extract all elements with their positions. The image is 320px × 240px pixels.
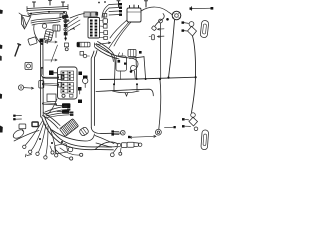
stack ring 2 <box>64 28 67 31</box>
ribbon terminals <box>119 3 122 16</box>
ribbon converge wires <box>102 5 109 19</box>
module wire dot <box>41 43 43 45</box>
bracket rivet 3 <box>63 11 65 13</box>
web dot 2 <box>51 142 53 144</box>
web cross wire <box>14 131 39 142</box>
web ring 8 stem <box>50 146 52 151</box>
bracket rivet 1 <box>30 13 32 15</box>
small stud part <box>152 35 155 40</box>
connector lower pinblock <box>77 42 90 47</box>
lower bracket with hooks <box>28 11 67 16</box>
stack feed wires <box>67 17 80 32</box>
main trunk right vertical <box>91 51 97 128</box>
stack square 1 <box>64 24 68 27</box>
web oval ring <box>12 128 25 140</box>
hook bolt c <box>185 118 189 121</box>
lower bracket second line <box>29 13 66 15</box>
stack ring 1 <box>64 19 67 22</box>
T bolts pair <box>16 116 22 120</box>
leader arrow 1 <box>158 28 165 30</box>
small connector rect upper web <box>19 124 26 129</box>
fuse box body <box>58 67 78 99</box>
hook ring bottom-right <box>191 113 196 118</box>
leader arrow 2 <box>158 36 165 38</box>
connector cap B <box>91 12 97 17</box>
tiny box above stack <box>60 14 63 18</box>
small part below stack <box>65 43 69 47</box>
loom end ribbed connector <box>79 126 90 136</box>
small relay left stack line <box>65 19 67 41</box>
fusebox left feed <box>54 72 58 74</box>
bolt near relay <box>145 1 148 7</box>
small ring below pin block <box>83 54 87 58</box>
small module lower-left <box>28 37 38 46</box>
fan wires above loop <box>45 107 70 119</box>
bracket clamp bow <box>113 91 140 96</box>
bolt on rail 2 <box>49 0 52 5</box>
bolt on rail 3 <box>62 2 65 7</box>
slant cable dot <box>167 77 169 79</box>
hatched grommet small <box>121 130 126 135</box>
right column relay <box>103 19 108 24</box>
web ring 7 <box>80 153 83 156</box>
harness diagonal band 1 <box>96 42 115 86</box>
bracket clamp right tick <box>136 85 138 91</box>
round-head screw <box>18 85 23 90</box>
small connector tick <box>21 129 23 131</box>
loop inner corner wire <box>52 130 94 141</box>
branch box terminal <box>139 51 142 54</box>
tiny screw dot b <box>104 1 106 3</box>
tiny screw dot a <box>98 2 100 4</box>
canister inner dot <box>118 60 121 63</box>
multi-pin connector block <box>88 18 100 39</box>
dark connector on band <box>32 122 38 127</box>
fuse box ring <box>62 94 65 97</box>
fan terminals <box>64 106 73 116</box>
web wire 4 <box>46 126 48 156</box>
hook bolt d <box>185 125 191 127</box>
hook diamond top-right <box>188 26 197 36</box>
bracket clamp left tick <box>113 85 115 91</box>
drop wire b <box>144 57 146 79</box>
left edge clipped part 4 <box>0 94 2 99</box>
fuse box small tab <box>70 95 74 98</box>
bolt above ribbon <box>117 1 120 7</box>
left slant cable <box>169 20 175 78</box>
grommet hole <box>175 14 179 18</box>
inline drop ring 1 <box>110 153 114 157</box>
trunk band 3 <box>43 103 56 106</box>
small rect below pin block <box>80 52 84 56</box>
bolt pair bottom-center a <box>114 130 119 132</box>
long bolt head right <box>211 7 214 10</box>
grommet top-right <box>172 11 181 20</box>
web ring 8 <box>51 151 54 154</box>
drop wire c to ring <box>159 79 161 129</box>
connector block lower 2 <box>62 110 69 114</box>
fuse square 3 <box>104 36 108 39</box>
link plate bottom-right <box>201 130 209 150</box>
long bolt head left <box>190 7 193 9</box>
lead branch down <box>155 14 164 80</box>
hook bolt a <box>184 22 189 25</box>
bundle tail wire <box>70 14 85 19</box>
right bus horizontal <box>100 77 196 79</box>
web lower wire 7 <box>60 148 80 155</box>
web ring 2 <box>29 150 32 153</box>
stack arrow tick <box>71 28 75 30</box>
wire relay to harness <box>109 20 131 48</box>
web ring 5 <box>55 154 58 157</box>
long cable right <box>192 36 196 113</box>
web ring 4 <box>44 156 47 159</box>
inner module ring <box>68 147 73 152</box>
web wire 5 <box>50 128 56 154</box>
pennant hook <box>130 58 139 70</box>
connector cap A <box>84 12 90 17</box>
top rail bar <box>27 5 68 12</box>
stack square 2 <box>64 32 68 35</box>
block lower wires <box>48 99 62 114</box>
hook diamond bottom-right <box>189 117 198 126</box>
web bolt arrow <box>26 154 32 157</box>
arrow line mid <box>45 59 58 61</box>
tail wires to bottom-center <box>95 142 118 150</box>
web wire 3 <box>39 124 47 152</box>
pennant dot <box>130 70 133 73</box>
hook bolt b <box>184 30 187 32</box>
pennant stem <box>134 71 137 79</box>
bolt on rail 1 <box>33 2 36 7</box>
inline drop 2 <box>120 148 123 152</box>
inner module dot <box>61 141 63 143</box>
bracket rivet 2 <box>48 11 50 13</box>
fuse lead ticks <box>100 21 104 38</box>
web wire 1 <box>26 120 44 145</box>
lead junction dot <box>166 18 169 21</box>
side sensor cap <box>83 76 88 79</box>
pin column 2 <box>95 20 98 37</box>
fuse grid upper <box>61 71 74 81</box>
web wire 2 <box>31 122 44 150</box>
web lower wire 6 <box>56 150 70 158</box>
trunk top connector <box>40 39 44 43</box>
bundle connector right <box>62 14 69 19</box>
fuse square 2 <box>104 31 108 35</box>
diagonal pointer <box>51 45 58 62</box>
right column small cap <box>103 14 107 18</box>
long bolt bottom <box>130 136 156 138</box>
left edge clipped part 1 <box>0 10 3 14</box>
big loop band bottom inner <box>44 116 111 147</box>
inline junction ring <box>117 143 121 147</box>
drop wire a <box>135 57 138 79</box>
cap side dark rect <box>96 12 99 16</box>
side terminal 2 <box>78 87 82 91</box>
corrugated loom <box>59 119 78 137</box>
branch box tick <box>131 50 134 57</box>
harness diagonal band 2 <box>95 46 144 60</box>
trunk branch L <box>42 68 58 78</box>
loom feed band <box>43 113 61 129</box>
lead bead <box>159 19 163 23</box>
band2 connector left <box>39 81 44 89</box>
screw at eyelet <box>165 126 174 129</box>
link plate top-right <box>200 20 209 38</box>
left edge clipped part 2 <box>0 45 2 49</box>
side terminal 3 <box>78 100 82 104</box>
ignition lead arc to grommet <box>141 7 172 15</box>
small ring below hook <box>194 127 198 131</box>
canister top lines <box>118 53 123 80</box>
eyelet ring bottom <box>156 129 162 135</box>
wire curl <box>34 25 43 45</box>
grommet hatch <box>173 12 181 19</box>
main trunk vertical <box>40 40 43 117</box>
left feed connector <box>49 71 54 76</box>
lead end plug <box>151 26 156 31</box>
drop wire b dot <box>145 78 147 80</box>
cable junction dot <box>195 76 197 78</box>
branch end lug 2 <box>62 75 65 79</box>
ribbon wires top <box>109 4 119 15</box>
pin column 1 <box>90 20 93 37</box>
drop wire c dot <box>159 78 161 80</box>
inline cap <box>139 143 142 146</box>
junction box ticks <box>55 25 58 31</box>
big loop band bottom outer <box>42 117 114 150</box>
inline drop ring 2 <box>119 152 122 155</box>
rod with arrow <box>95 42 111 47</box>
small junction box <box>53 25 60 31</box>
relay box top-center <box>127 8 141 22</box>
branch box center <box>128 50 136 57</box>
trunk band 2 <box>43 83 58 86</box>
tail crossing wire <box>95 136 114 144</box>
side sensor ring <box>83 78 88 83</box>
trunk corner to branch wire <box>91 128 120 134</box>
side sensor stem <box>84 84 86 88</box>
fusebox side terminal <box>79 72 83 76</box>
inline drop 1 <box>113 147 117 153</box>
band2 lug right <box>58 83 62 88</box>
left edge clipped part 5 <box>0 126 3 133</box>
open frame box <box>47 94 56 102</box>
drop wire a dot <box>136 78 138 80</box>
stack bottom dot <box>64 37 66 39</box>
bundle connector tip <box>64 19 70 23</box>
branch end lug 1 <box>58 75 62 80</box>
web ring 3 <box>36 152 39 155</box>
corner bracket triangle <box>19 13 31 29</box>
web dot 1 <box>39 138 41 140</box>
inner module tilted <box>54 144 67 154</box>
canister bracket <box>116 56 127 71</box>
connector block lower 1 <box>62 103 70 108</box>
clip square <box>25 63 32 70</box>
box down wires <box>47 32 56 44</box>
web ring 6 <box>70 157 73 160</box>
lower bus <box>96 89 153 96</box>
relay terminals <box>130 5 139 8</box>
cap tick marks <box>86 12 95 17</box>
canister side tick <box>124 63 127 65</box>
clip ring mid cluster <box>42 24 46 28</box>
fuse square 1 <box>103 25 107 29</box>
tilted screw left <box>15 44 21 56</box>
inline component body <box>122 143 128 148</box>
long bolt top-right <box>192 7 213 11</box>
clip ring <box>27 64 31 68</box>
fuse grid lower <box>61 83 74 94</box>
small part ring <box>65 48 68 51</box>
wire bundle wavy <box>31 18 61 26</box>
banded hose <box>44 29 54 42</box>
left edge clipped part 3 <box>0 56 2 61</box>
web ring 1 <box>23 145 26 148</box>
ring tick <box>87 55 90 57</box>
arrow line top <box>45 41 58 43</box>
hook ring top-right <box>189 22 194 27</box>
relay inner line <box>127 11 141 13</box>
bolt pair bottom-center b <box>114 133 119 135</box>
